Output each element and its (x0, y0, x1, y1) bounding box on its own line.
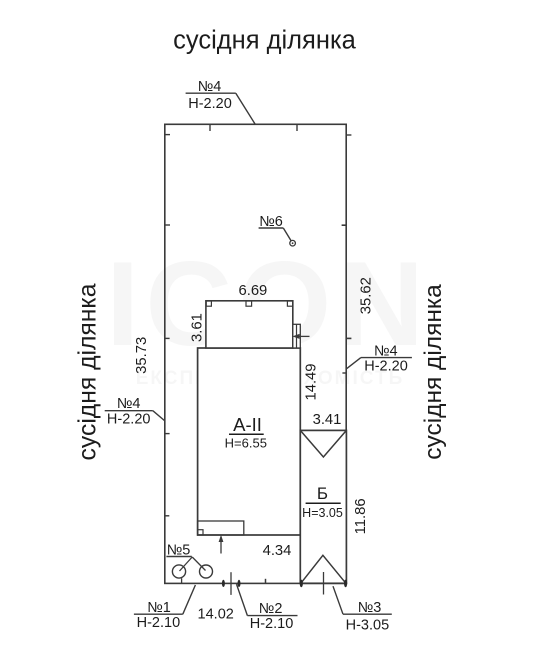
label B (302, 484, 343, 520)
point №2 label (237, 584, 298, 632)
veranda post top-middle (246, 301, 252, 306)
door/step symbol right of veranda (292, 324, 309, 348)
veranda post top-left (206, 301, 211, 306)
building B outline (300, 430, 346, 583)
plot boundary (165, 124, 346, 583)
svg-text:Н=3.05: Н=3.05 (302, 506, 343, 520)
tree circle 2 (200, 565, 213, 578)
svg-text:35.73: 35.73 (134, 337, 150, 374)
svg-text:сусідня ділянка: сусідня ділянка (173, 27, 357, 55)
survey point №4 top label (186, 79, 256, 125)
svg-text:11.86: 11.86 (353, 498, 369, 534)
bottom fence tick x265 (265, 579, 267, 584)
svg-text:Н-2.10: Н-2.10 (250, 616, 294, 632)
tree circle 1 (172, 565, 185, 578)
svg-text:3.41: 3.41 (313, 412, 342, 428)
svg-text:№2: №2 (259, 601, 283, 617)
point №6 label with marker circle (259, 214, 296, 246)
tick below tree 1 (181, 578, 183, 584)
leader to tree 1 center (180, 557, 193, 571)
boundary tick right edge y338 (346, 337, 351, 339)
veranda outline (206, 301, 293, 348)
watermark ICON (106, 237, 430, 389)
svg-text:3.61: 3.61 (190, 313, 206, 342)
svg-text:Н-2.20: Н-2.20 (364, 358, 408, 374)
bottom fence tick x231 (230, 572, 232, 595)
boundary tick right edge y373 (342, 372, 346, 374)
survey lens point x239 (238, 580, 241, 587)
survey point №4 left label (105, 396, 165, 428)
svg-text:Б: Б (317, 484, 328, 503)
svg-text:№4: №4 (117, 396, 141, 412)
svg-text:35.62: 35.62 (359, 277, 375, 314)
svg-text:Н-3.05: Н-3.05 (346, 617, 390, 633)
building A-II outline (198, 348, 301, 535)
svg-text:Н-2.10: Н-2.10 (137, 615, 181, 631)
porch at bottom-left of A (198, 521, 244, 535)
svg-text:сусідня ділянка: сусідня ділянка (420, 284, 447, 460)
boundary tick right edge y225 (342, 224, 347, 226)
corner tick top-left (165, 134, 170, 136)
point №3 label (333, 586, 392, 633)
boundary tick top edge x297 (296, 124, 298, 131)
svg-text:4.34: 4.34 (263, 543, 292, 559)
svg-text:№4: №4 (198, 79, 222, 95)
label A-II (225, 414, 267, 451)
survey lens point x223 (222, 580, 225, 587)
boundary tick top edge x210 (209, 124, 211, 131)
survey point №4 right label (347, 343, 412, 374)
porch corner square (198, 530, 203, 535)
survey lens point x301 (300, 580, 303, 588)
corner tick top-right (346, 134, 351, 136)
svg-text:Н=6.55: Н=6.55 (225, 436, 267, 451)
entrance arrow up (219, 535, 224, 554)
svg-text:сусідня ділянка: сусідня ділянка (75, 283, 102, 460)
svg-text:Н-2.20: Н-2.20 (188, 96, 232, 112)
B roof gable bottom (triangle up) (301, 555, 346, 583)
svg-text:А-II: А-II (233, 414, 262, 435)
boundary tick left edge y338 (165, 337, 170, 339)
svg-text:14.49: 14.49 (304, 363, 320, 400)
bottom fence tick x323 (323, 572, 325, 595)
leader to tree 2 center (192, 557, 205, 571)
svg-text:Н-2.20: Н-2.20 (107, 412, 151, 428)
svg-text:6.69: 6.69 (238, 283, 267, 299)
svg-text:14.02: 14.02 (198, 606, 234, 622)
boundary tick left edge y516 (165, 515, 170, 517)
B roof gable top (triangle down) (300, 430, 346, 457)
boundary tick left edge y225 (165, 224, 170, 226)
boundary tick left edge y434 (165, 433, 170, 435)
survey lens point x345 (344, 580, 347, 588)
trees №5 label (166, 542, 212, 584)
point №1 label (134, 585, 196, 631)
veranda post top-right (287, 301, 292, 306)
